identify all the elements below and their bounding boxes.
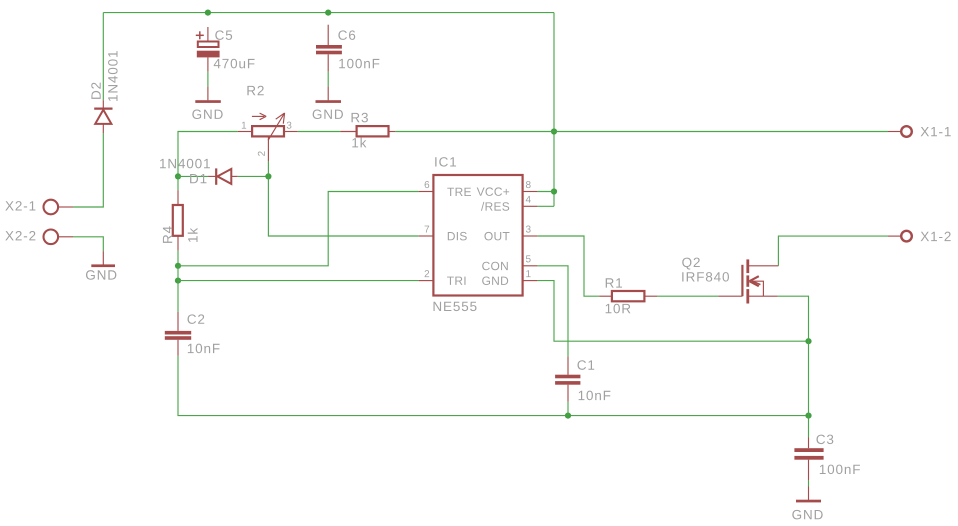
wire CON pin 5 to C1	[537, 266, 568, 357]
IC1 pin 6 stub	[419, 191, 434, 193]
resistor R4 pin stub top	[177, 190, 179, 205]
resistor R1 pin stub left	[599, 295, 612, 297]
IC1 pin 4 stub	[523, 205, 538, 207]
ground GND bar at X2-2	[91, 264, 115, 267]
label R1 value 10R	[606, 304, 631, 314]
IC1 pin 1 stub	[523, 280, 538, 282]
wire C6 to GND	[327, 72, 329, 87]
label C2 name	[187, 314, 204, 324]
wire X2-2 to GND	[73, 237, 103, 251]
label R2 pin number 2 (rotated)	[258, 151, 265, 156]
op-amp/timer IC1 body	[433, 175, 522, 296]
capacitor C1 top plate	[555, 375, 580, 379]
diode D1 cathode bar	[215, 168, 217, 184]
label Q2 value IRF840	[682, 272, 729, 282]
diode D2 pin bottom	[102, 124, 104, 133]
label GND at C6	[313, 109, 343, 119]
diode D2 triangle	[95, 110, 111, 124]
IC1 pin name GND	[482, 277, 508, 285]
potentiometer R2 adjust arrow shaft	[252, 115, 264, 117]
ground GND bar at C6	[316, 100, 342, 103]
node junction D1 anode / R2 wiper	[265, 173, 271, 179]
label C1 value 10nF	[579, 391, 611, 401]
wire TRI node down to C2	[177, 266, 179, 312]
wire pin 4 to VCC	[537, 205, 554, 207]
diode D1 pin left	[208, 175, 216, 177]
diode D1 triangle	[217, 169, 231, 184]
node junction C1 at bottom bus	[565, 413, 571, 419]
IC1 pin 2 stub	[419, 280, 434, 282]
IC1 pin name /RES	[481, 202, 509, 211]
label C6 name	[338, 30, 355, 40]
potentiometer R2 wiper arrow shaft	[268, 113, 285, 140]
label D2 value 1N4001 (rotated)	[108, 51, 118, 101]
capacitor C3 bottom plate	[794, 456, 823, 460]
IC1 pin number 6	[425, 181, 430, 188]
potentiometer R2 body	[252, 126, 284, 136]
wire D2 cathode to VCC bus	[102, 13, 104, 101]
IC1 pin number 8	[526, 181, 531, 188]
potentiometer R2 pin 1 stub	[238, 131, 252, 133]
resistor R3 pin stub left	[340, 131, 356, 133]
potentiometer R2 wiper arrowhead line 2	[283, 113, 284, 124]
capacitor C6 bottom plate	[316, 51, 342, 55]
IC1 pin 5 stub	[523, 265, 538, 267]
connector pad X2-2	[44, 230, 59, 245]
wire GND pin 1 to source node	[537, 281, 808, 342]
wire TRE node to pin 6	[178, 192, 419, 266]
label GND at X2-2	[86, 270, 116, 280]
transistor Q2 gate pin	[718, 295, 742, 297]
resistor R3 body	[357, 126, 389, 136]
pin stub X2-2	[58, 236, 73, 238]
wire R1 to Q2 gate	[657, 295, 718, 297]
transistor Q2 source pin	[748, 295, 778, 297]
node VCC junction at X1-1 row	[551, 128, 557, 134]
label R2 name	[247, 86, 263, 95]
transistor Q2 channel bar top	[746, 259, 749, 273]
ground GND pin at C5	[207, 87, 209, 101]
capacitor C1 bottom plate	[555, 381, 580, 385]
potentiometer R2 wiper arrowhead line 1	[276, 113, 285, 119]
wire VCC to R2 pin 1	[178, 132, 238, 191]
label R4 value 1k (rotated)	[188, 228, 198, 242]
label C3 value 100nF	[820, 465, 860, 475]
pin stub X1-1	[888, 131, 901, 133]
wire wiper node to DIS pin 7	[268, 176, 418, 236]
transistor Q2 bulk arrowhead	[749, 276, 758, 286]
wire C2 bottom to ground bus	[178, 356, 809, 416]
wire R4 bottom to TRE node	[177, 251, 179, 266]
wire C3 to GND symbol	[808, 480, 810, 486]
potentiometer R2 pin 3 stub	[284, 131, 298, 133]
resistor R4 body	[173, 205, 183, 236]
IC1 pin name TRE	[447, 188, 471, 196]
label IC1 value NE555	[434, 302, 477, 311]
label X1-1	[921, 127, 951, 136]
IC1 pin number 2	[425, 270, 430, 277]
label GND at C3	[792, 510, 822, 520]
resistor R1 body	[612, 291, 645, 301]
label R1 name	[606, 278, 622, 287]
ground GND bar at C3	[796, 500, 821, 503]
transistor Q2 channel bar middle	[746, 275, 749, 286]
transistor Q2 channel bar bottom	[746, 289, 749, 303]
node VCC junction at C5	[205, 10, 211, 16]
label C5 name	[215, 30, 232, 40]
label X2-2	[5, 231, 35, 240]
connector pad X1-2	[901, 231, 912, 242]
wire D1 anode to wiper node	[238, 175, 269, 177]
wire C5 to GND	[207, 72, 209, 87]
label GND at C5	[192, 109, 222, 119]
label R2 pin number 3	[287, 122, 292, 129]
capacitor C5 pin top	[207, 27, 209, 42]
wire C1 bottom to bus	[567, 402, 569, 416]
capacitor C1 pin bottom	[567, 385, 569, 402]
IC1 pin number 7	[425, 226, 430, 233]
diode D2 cathode bar	[94, 107, 112, 109]
IC1 pin name DIS	[448, 232, 467, 240]
label X2-1	[5, 201, 35, 210]
capacitor C3 pin top	[808, 438, 810, 449]
node VCC junction at C6	[325, 10, 331, 16]
IC1 pin number 5	[526, 255, 531, 262]
diode D1 pin right	[231, 175, 237, 177]
ground GND at X2-2 pin	[102, 251, 104, 264]
IC1 pin 7 stub	[419, 235, 434, 237]
wire D2 anode to X2-1	[73, 133, 103, 207]
IC1 pin 8 stub	[523, 191, 538, 193]
capacitor C5 top plate (outline)	[198, 42, 219, 48]
diode D2 pin top	[102, 100, 104, 108]
wire D1 cathode to R4 node	[178, 175, 208, 177]
capacitor C3 pin bottom	[808, 460, 810, 481]
label Q2 name	[682, 258, 700, 270]
capacitor C5 plus sign	[196, 34, 204, 36]
IC1 pin name TRI	[447, 277, 465, 285]
label C2 value 10nF	[188, 344, 220, 354]
wire Q2 source down to C3	[778, 296, 809, 437]
label R3 name	[352, 113, 368, 123]
capacitor C6 pin bottom	[327, 54, 329, 71]
IC1 pin 3 stub	[523, 235, 538, 237]
IC1 pin name OUT	[484, 232, 509, 240]
IC1 pin number 1	[526, 270, 530, 277]
wire pin 8 to VCC	[537, 191, 554, 193]
capacitor C3 top plate	[794, 448, 823, 452]
pin stub X2-1	[58, 206, 73, 208]
potentiometer R2 pin 2 stub (wiper)	[267, 136, 269, 161]
capacitor C2 pin bottom	[177, 340, 179, 356]
capacitor C6 pin top	[327, 25, 329, 45]
IC1 pin number 4	[526, 196, 531, 203]
potentiometer R2 adjust arrowhead	[260, 113, 267, 120]
label R2 pin number 1	[242, 122, 246, 129]
resistor R4 pin stub bottom	[177, 236, 179, 251]
connector pad X1-1	[901, 126, 912, 137]
node junction GND net at source column	[805, 338, 811, 344]
wire VCC right vertical	[553, 13, 555, 207]
wire R3 to X1-1	[395, 131, 888, 133]
ground GND pin at C6	[327, 87, 329, 101]
capacitor C2 pin top	[177, 312, 179, 331]
capacitor C6 top plate	[316, 45, 342, 49]
label D2 name (rotated)	[91, 83, 100, 99]
node junction R4 bottom	[175, 263, 181, 269]
connector pad X2-1	[44, 200, 59, 215]
capacitor C1 pin top	[567, 357, 569, 375]
wire TRI node to pin 2	[178, 280, 419, 282]
label R3 value 1k	[352, 138, 366, 148]
IC1 pin name CON	[482, 262, 508, 270]
wire R2 wiper down	[267, 161, 269, 176]
label IC1 name	[435, 157, 456, 167]
capacitor C5 bottom plate (filled)	[197, 51, 220, 58]
resistor R3 pin stub right	[389, 131, 396, 133]
wire Q2 drain to X1-2	[778, 236, 888, 266]
transistor Q2 drain pin	[748, 265, 779, 267]
label R4 name (rotated)	[163, 226, 172, 243]
IC1 pin name VCC+	[477, 187, 509, 195]
resistor R1 pin stub right	[644, 295, 657, 297]
capacitor C2 bottom plate	[165, 336, 191, 340]
label C1 name	[577, 360, 594, 370]
label C6 value 100nF	[339, 59, 379, 69]
capacitor C2 top plate	[165, 331, 191, 335]
node junction TRI net	[175, 278, 181, 284]
ground GND pin at C3	[808, 487, 810, 501]
transistor Q2 gate bar	[741, 265, 743, 296]
transistor Q2 bulk connection	[752, 281, 763, 296]
IC1 pin number 3	[526, 226, 531, 233]
label D1 value 1N4001	[160, 159, 210, 169]
node junction R4 top / D1 cathode	[175, 173, 181, 179]
wire R2 pin 3 to R3 pin 1	[298, 131, 341, 133]
label C3 name	[816, 435, 833, 445]
wire VCC top bus	[103, 12, 554, 14]
label C5 value 470uF	[214, 59, 255, 69]
node junction C3 at bottom bus	[805, 413, 811, 419]
ground GND bar at C5	[195, 100, 221, 103]
wire OUT pin 3 to R1	[537, 236, 599, 296]
label X1-2	[921, 232, 951, 241]
node VCC junction at pin 8	[551, 188, 557, 194]
label D1 name	[190, 174, 206, 183]
capacitor C5 pin bottom	[207, 57, 209, 71]
pin stub X1-2	[888, 235, 901, 237]
